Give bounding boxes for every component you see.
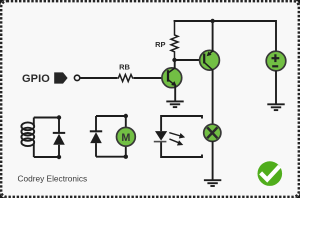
checkmark badge — [258, 161, 283, 186]
svg-text:GPIO: GPIO — [22, 73, 50, 85]
resistor RB — [117, 75, 134, 82]
GPIO terminal circle — [74, 75, 79, 80]
ground under supply — [267, 104, 284, 110]
transistor Q2 (PNP) — [200, 50, 220, 70]
wire motor leads — [125, 116, 127, 128]
dark outer corners — [0, 0, 300, 198]
ground under lamp — [204, 180, 221, 186]
motor top wire — [96, 115, 126, 117]
wire Q1 collector up to node — [174, 60, 176, 69]
wire RB to Q1 base — [134, 77, 168, 79]
battery / supply V1 — [266, 51, 286, 71]
dashed border frame — [1, 1, 299, 197]
LED light arrow 1 — [170, 133, 184, 138]
wire supply to ground — [275, 71, 277, 104]
background card — [0, 0, 300, 198]
junction dot motor bottom — [124, 155, 128, 159]
junction dot motor top — [124, 114, 128, 118]
motor M1 — [117, 127, 136, 146]
ground under Q1 — [166, 101, 183, 107]
motor bottom wire — [96, 156, 126, 158]
LED load example: bracket top — [161, 116, 202, 131]
wire rail to Q2 emitter — [212, 21, 214, 52]
junction dot D1 top — [57, 115, 61, 119]
top wire coil to diode D1 — [34, 117, 59, 119]
node A junction dot — [172, 58, 176, 62]
junction dot on rail — [210, 19, 214, 23]
LED D3 — [154, 131, 167, 142]
transistor Q1 (NPN) — [162, 68, 182, 88]
svg-text:RB: RB — [119, 63, 130, 72]
flyback diode D1 — [53, 118, 65, 158]
LED light arrow 2 — [170, 139, 182, 145]
svg-text:Codrey Electronics: Codrey Electronics — [18, 174, 88, 184]
junction dot D1 bottom — [57, 155, 61, 159]
wire GPIO to RB — [80, 77, 117, 79]
bottom wire coil to diode — [34, 156, 59, 158]
wire node A to Q2 base — [175, 59, 205, 61]
wire lamp to ground — [212, 141, 214, 180]
wire Q2 collector down to lamp — [212, 69, 214, 124]
lamp X1 (indicator) — [204, 124, 221, 141]
top supply rail — [175, 21, 277, 52]
resistor RP (vertical) — [171, 21, 178, 60]
svg-text:M: M — [121, 132, 130, 144]
LED load example: bracket bottom — [161, 142, 202, 157]
motor load example: diode D2 — [90, 116, 102, 157]
GPIO pin tag — [54, 72, 67, 83]
wire Q1 emitter down to ground — [174, 86, 176, 101]
svg-text:RP: RP — [155, 40, 165, 49]
relay load example: coil L1 — [21, 118, 34, 158]
